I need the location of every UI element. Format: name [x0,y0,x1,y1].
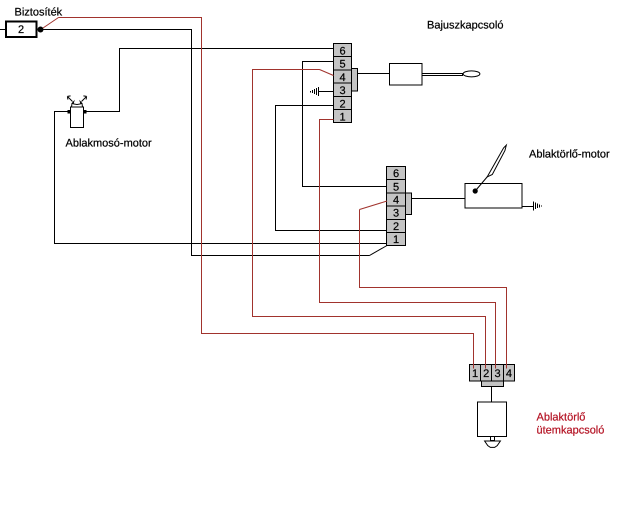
wire: battery lead into fuse [0,29,6,31]
svg-text:1: 1 [393,234,399,246]
connector J2 pin numbers 6..1 [393,168,399,246]
wire: connector J2 tab to wiper motor [412,198,466,200]
red wire: connector J1 pin1 to connector J3 pin3 [320,120,496,369]
connector J1 pin numbers 6..1 [339,46,345,124]
wiper motor shaft dot [473,188,478,193]
wire: connector J1 pin2 to connector J2 pin2 [276,106,388,231]
ground symbol at wiper motor [534,201,542,210]
svg-text:2: 2 [483,368,489,380]
red diagonal segments [43,18,387,210]
svg-text:Biztosíték: Biztosíték [15,7,63,19]
svg-text:2: 2 [393,221,399,233]
red wires, orthogonal [59,18,507,369]
red wire: diagonal fuse dot to red bus [43,18,59,29]
wire: washer motor left terminal to connector2 pin1 [55,112,388,244]
svg-text:Ablaktörlő: Ablaktörlő [537,412,586,424]
svg-text:Ablakmosó-motor: Ablakmosó-motor [66,138,153,150]
connector J1 body (6 pins) [334,44,352,123]
washer motor right terminal [84,110,87,114]
washer motor spray nozzle icon [72,104,83,108]
wire: connector J1 pin5 to connector J2 pin5 [303,62,388,187]
interval switch knob dome [485,441,501,447]
svg-text:1: 1 [472,368,478,380]
red wire: fuse to connector J3 pin1 [59,18,474,369]
wire: connector J1 pin3 to chassis ground [319,91,334,93]
svg-text:6: 6 [393,168,399,180]
svg-text:ütemkapcsoló: ütemkapcsoló [537,425,605,437]
wiper motor M2 body (Ablaktörlő-motor) [465,184,522,209]
connector J3 pin numbers 1..4 [472,368,512,380]
wiper arm link [475,177,487,192]
svg-text:Bajuszkapcsoló: Bajuszkapcsoló [427,20,503,32]
svg-text:3: 3 [339,85,345,97]
fuse F2 box [6,22,37,38]
wire: wiper motor to chassis ground [522,206,534,208]
wiper blade [487,145,506,177]
ground symbol at connector J1 pin3 [311,87,319,96]
red wire: connector J2 pin4 run to connector J3 pin4 [360,210,507,369]
bottom connector J3 body (4 pins) [470,365,515,382]
wire: washer motor right terminal to connector1 pin6 [87,49,335,112]
svg-text:2: 2 [18,24,24,36]
connector J2 side tab [406,193,412,215]
stalk switch S1 body (Bajuszkapcsoló) [390,64,423,86]
svg-text:3: 3 [494,368,500,380]
svg-text:5: 5 [393,181,399,193]
svg-text:3: 3 [393,208,399,220]
svg-text:4: 4 [393,195,399,207]
svg-text:6: 6 [339,46,345,58]
svg-text:1: 1 [339,112,345,124]
node: fuse output junction dot [38,27,44,33]
red wire: diagonal into connector J1 pin4 [320,70,334,76]
stalk switch lever [422,74,463,76]
svg-text:Ablaktörlő-motor: Ablaktörlő-motor [529,149,610,161]
interval switch S2 body (Ablaktörlő ütemkapcsoló) [478,402,507,437]
wire: connector J3 tab to interval switch [491,387,493,403]
connector J2 body (6 pins) [387,167,406,246]
wire: black bus fuse to connector2 pin1 (right, down, right) [43,30,370,256]
svg-text:5: 5 [339,59,345,71]
interval switch stem [491,437,495,441]
wire: connector J1 tab to stalk switch [358,73,390,75]
connector J3 bottom tab [482,381,504,387]
connector J1 side tab [352,69,358,92]
washer motor left terminal [68,110,71,114]
svg-text:4: 4 [339,72,345,84]
diagonal black segments (aliased look) [38,27,507,448]
svg-text:4: 4 [506,368,512,380]
red wire: connector J1 pin4 run to connector J3 pin2 [253,70,486,369]
svg-text:2: 2 [339,98,345,110]
wire: diagonal into connector J2 pin1 [370,246,388,256]
washer motor M1 body [71,107,84,128]
red wire: diagonal connector J2 pin4 to vertical run [360,201,388,210]
stalk switch knob [463,71,480,77]
